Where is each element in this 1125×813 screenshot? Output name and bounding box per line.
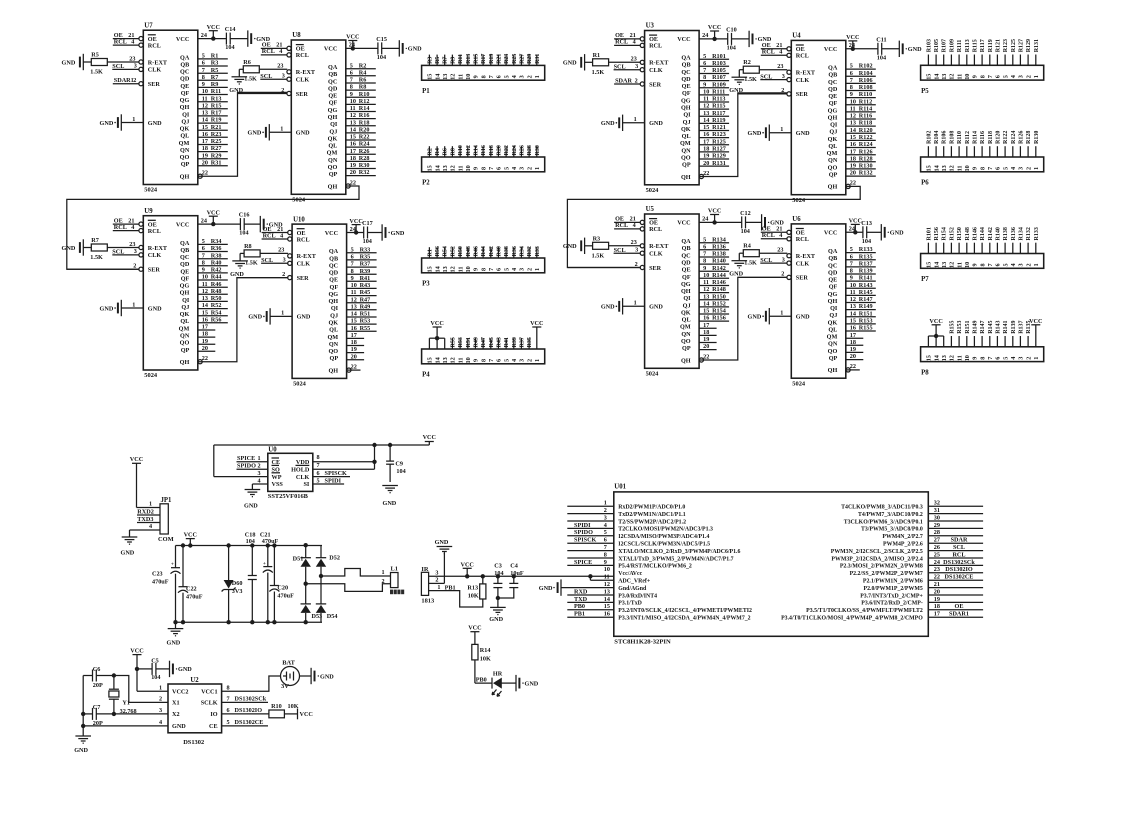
svg-text:10: 10 <box>465 266 472 272</box>
svg-text:16: 16 <box>850 141 856 148</box>
svg-text:R-EXT: R-EXT <box>796 70 816 77</box>
P6 pin 15 net R102 <box>927 146 929 157</box>
VCC symbol at U6 <box>854 224 856 232</box>
svg-text:2: 2 <box>133 77 136 84</box>
svg-text:JP1: JP1 <box>161 497 173 504</box>
svg-text:R15: R15 <box>211 102 222 109</box>
svg-text:15: 15 <box>703 124 709 131</box>
svg-text:QM: QM <box>179 325 190 332</box>
U2 IO pin 6 wire DS1302IO <box>222 713 269 715</box>
svg-text:3: 3 <box>519 167 526 170</box>
svg-text:2: 2 <box>526 167 533 170</box>
svg-text:23: 23 <box>777 247 783 254</box>
svg-text:QM: QM <box>680 140 691 147</box>
svg-text:R111: R111 <box>957 40 963 53</box>
ground at U2 <box>75 735 91 737</box>
svg-text:R128: R128 <box>1026 131 1032 144</box>
MCU pin 20 wire <box>928 594 983 596</box>
svg-text:RCL: RCL <box>796 53 809 60</box>
P1 pin 3 net R27 <box>520 55 522 66</box>
svg-text:SCL: SCL <box>614 64 626 71</box>
U8 output pin 15 net R22 <box>346 139 376 141</box>
svg-text:R20: R20 <box>359 127 370 134</box>
svg-text:R16: R16 <box>359 112 370 119</box>
U0 SI pin 5 wire SPIDI <box>313 483 344 485</box>
svg-text:104: 104 <box>377 54 386 61</box>
svg-text:R41: R41 <box>360 275 371 282</box>
U5 R-EXT pin 23 wire <box>609 245 641 247</box>
svg-text:1: 1 <box>634 116 637 123</box>
svg-text:1: 1 <box>534 167 541 170</box>
MCU U01 STC8H1K28-32PIN <box>614 492 929 636</box>
P5 pin 2 net R129 <box>1027 55 1029 66</box>
svg-text:3: 3 <box>519 359 526 362</box>
svg-text:R33: R33 <box>535 246 541 256</box>
svg-text:RCL: RCL <box>649 43 662 50</box>
svg-text:DS1302: DS1302 <box>183 739 204 746</box>
svg-text:1: 1 <box>159 684 162 691</box>
svg-text:QD: QD <box>180 261 190 268</box>
svg-text:GND: GND <box>748 314 762 321</box>
svg-text:9: 9 <box>473 268 480 271</box>
svg-text:4: 4 <box>604 522 607 529</box>
svg-text:R-EXT: R-EXT <box>296 69 316 76</box>
svg-text:9: 9 <box>703 81 706 88</box>
svg-text:GND: GND <box>748 130 762 137</box>
ground at C12 <box>761 214 763 230</box>
RTC U2 DS1302 <box>168 684 222 733</box>
U4 output pin 11 net R114 <box>846 111 876 113</box>
svg-text:10K: 10K <box>468 593 479 600</box>
svg-text:13: 13 <box>604 588 610 595</box>
svg-text:4: 4 <box>511 167 518 170</box>
ground at U5 pin 1 <box>622 298 624 314</box>
svg-text:14: 14 <box>434 74 441 80</box>
svg-text:18: 18 <box>202 331 208 338</box>
P5 pin 9 net R115 <box>973 55 975 66</box>
svg-text:2: 2 <box>635 77 638 84</box>
svg-text:5: 5 <box>317 477 320 484</box>
U8 output pin 10 net R12 <box>346 103 376 105</box>
svg-text:R105: R105 <box>934 39 940 52</box>
svg-text:HR: HR <box>493 670 503 677</box>
resistor R14 10K <box>472 644 478 660</box>
svg-text:10: 10 <box>703 272 709 279</box>
svg-text:R49: R49 <box>473 337 479 347</box>
svg-text:C12: C12 <box>740 210 751 217</box>
shift register U4 <box>791 40 846 194</box>
svg-text:R25: R25 <box>211 138 222 145</box>
svg-text:QH: QH <box>328 183 338 190</box>
svg-text:GND: GND <box>601 120 615 127</box>
svg-text:15: 15 <box>850 134 856 141</box>
svg-text:13: 13 <box>941 262 948 268</box>
svg-text:8: 8 <box>979 263 986 266</box>
svg-text:P3.2/INT0/SCLK_4/I2CSCL_4/PWME: P3.2/INT0/SCLK_4/I2CSCL_4/PWMETI/PWMETI2 <box>618 608 752 614</box>
svg-text:QN: QN <box>180 333 190 340</box>
svg-text:R115: R115 <box>712 103 725 110</box>
svg-text:22: 22 <box>351 363 357 370</box>
svg-text:DS1302IO: DS1302IO <box>945 566 973 573</box>
svg-text:QL: QL <box>828 143 837 150</box>
svg-text:U5: U5 <box>646 206 655 213</box>
U5 output pin 7 net R138 <box>699 256 729 258</box>
svg-text:8: 8 <box>604 551 607 558</box>
svg-text:9: 9 <box>351 275 354 282</box>
svg-text:18: 18 <box>350 155 356 162</box>
svg-text:9: 9 <box>473 75 480 78</box>
U6 output pin 8 net R139 <box>846 273 876 275</box>
svg-text:9: 9 <box>202 81 205 88</box>
svg-text:QI: QI <box>683 112 691 119</box>
U10 output pin 14 net R51 <box>347 316 377 318</box>
P7 pin 8 net R144 <box>981 243 983 254</box>
connector P1 <box>422 65 545 80</box>
svg-text:R36: R36 <box>211 245 222 252</box>
U3 output pin 7 net R105 <box>699 73 729 75</box>
U10 output pin 12 net R47 <box>347 302 377 304</box>
svg-text:14: 14 <box>351 311 357 318</box>
svg-text:104: 104 <box>741 228 750 235</box>
svg-text:QL: QL <box>180 133 189 140</box>
svg-text:VCC: VCC <box>468 625 481 632</box>
P5 pin 10 net R113 <box>966 55 968 66</box>
svg-text:RCL: RCL <box>263 232 276 239</box>
svg-text:QK: QK <box>828 319 838 326</box>
svg-text:104: 104 <box>396 468 405 475</box>
MCU pin 26 wire net SCL <box>928 550 983 552</box>
svg-text:R147: R147 <box>980 320 986 333</box>
svg-text:R46: R46 <box>211 281 222 288</box>
svg-text:7: 7 <box>703 67 706 74</box>
svg-text:12: 12 <box>450 74 457 80</box>
P6 pin 11 net R110 <box>958 146 960 157</box>
capacitor C22 470uF <box>182 546 184 587</box>
svg-text:R7: R7 <box>443 57 449 64</box>
svg-text:10K: 10K <box>480 655 491 662</box>
svg-text:R14: R14 <box>480 647 491 654</box>
svg-text:D52: D52 <box>329 554 340 561</box>
svg-text:10: 10 <box>703 89 709 96</box>
MCU pin 22 wire net DS1302CE <box>928 579 983 581</box>
P6 pin 6 net R120 <box>996 146 998 157</box>
ground at R4 <box>739 252 743 254</box>
svg-text:6: 6 <box>995 263 1002 266</box>
svg-text:QJ: QJ <box>181 119 189 126</box>
svg-text:RCL: RCL <box>297 236 310 243</box>
svg-text:CLK: CLK <box>296 77 310 84</box>
svg-text:SCL: SCL <box>112 63 124 70</box>
svg-text:R113: R113 <box>712 96 725 103</box>
svg-text:11: 11 <box>850 289 856 296</box>
svg-text:R18: R18 <box>359 119 370 126</box>
svg-text:104: 104 <box>862 238 871 245</box>
svg-text:5: 5 <box>1002 75 1009 78</box>
svg-text:23: 23 <box>129 241 135 248</box>
wire bridge to L1 pin 1 <box>321 569 391 577</box>
svg-text:R156: R156 <box>934 227 940 240</box>
U6 output pin 10 net R143 <box>846 287 876 289</box>
U7 CLK pin 3 wire SCL <box>112 68 139 70</box>
U5 output pin 11 net R146 <box>699 285 729 287</box>
U9 output pin 14 net R52 <box>198 308 228 310</box>
MCU pin 16 wire net PB1 <box>567 616 614 618</box>
U0 CLK pin 6 wire SPISCK <box>313 476 350 478</box>
U8 output pin 17 net R26 <box>346 153 376 155</box>
svg-text:DS1302CE: DS1302CE <box>945 574 974 581</box>
U2 SCLK pin 7 wire DS1302SCk <box>222 701 268 703</box>
svg-text:6: 6 <box>227 707 230 714</box>
U3 output pin 19 net R129 <box>699 158 729 160</box>
svg-text:R145: R145 <box>988 320 994 333</box>
svg-text:QF: QF <box>330 284 339 291</box>
svg-text:22: 22 <box>202 170 208 177</box>
svg-text:104: 104 <box>363 238 372 245</box>
svg-text:29: 29 <box>934 522 940 529</box>
svg-text:11: 11 <box>956 74 963 80</box>
svg-text:QG: QG <box>180 283 190 290</box>
svg-text:R24: R24 <box>359 141 370 148</box>
svg-text:CLK: CLK <box>297 261 311 268</box>
P3 pin 4 net R36 <box>513 247 515 258</box>
P4 pin 2 net R35 <box>528 338 530 349</box>
svg-text:CLK: CLK <box>796 260 810 267</box>
U6 VCC pin 24 wire <box>846 231 863 233</box>
svg-text:11: 11 <box>956 262 963 268</box>
U10 output pin 10 net R43 <box>347 287 377 289</box>
diode D51 <box>305 545 307 558</box>
svg-text:23: 23 <box>129 55 135 62</box>
svg-text:PWM4P_2/P2.6: PWM4P_2/P2.6 <box>883 542 923 548</box>
wire U3 QH to U4 SER <box>699 93 787 177</box>
svg-text:GND: GND <box>408 46 422 53</box>
connector P5 <box>921 65 1044 80</box>
svg-text:Gnd/AGnd: Gnd/AGnd <box>618 586 647 592</box>
U9 output pin 19 <box>198 343 216 345</box>
P4 pin 5 net R41 <box>505 338 507 349</box>
wire C12 to ground <box>746 221 762 223</box>
svg-text:6: 6 <box>995 167 1002 170</box>
node bridge negative <box>304 582 308 586</box>
svg-text:9: 9 <box>972 357 979 360</box>
capacitor C11 104 <box>877 43 879 55</box>
MCU pin 4 wire net SPIDI <box>567 527 614 529</box>
MCU pin 2 wire <box>567 513 614 515</box>
svg-text:QG: QG <box>328 107 338 114</box>
svg-text:QC: QC <box>180 69 189 76</box>
svg-text:19: 19 <box>351 346 357 353</box>
svg-text:QI: QI <box>331 305 339 312</box>
U7 output pin 14 net R19 <box>198 122 228 124</box>
U5 SER pin 2 wire <box>567 267 640 269</box>
wire C10 to ground <box>732 38 750 40</box>
svg-text:SCL: SCL <box>260 73 272 80</box>
U5 CLK pin 3 wire SCL <box>614 252 641 254</box>
P4 pin 8 net R47 <box>482 338 484 349</box>
svg-text:6: 6 <box>850 70 853 77</box>
svg-text:GND: GND <box>62 59 76 66</box>
P2 pin 10 net R12 <box>467 146 469 157</box>
P3 pin 13 net R54 <box>444 247 446 258</box>
svg-text:R156: R156 <box>712 315 726 322</box>
svg-text:20P: 20P <box>93 682 103 689</box>
svg-text:R121: R121 <box>712 124 726 131</box>
ground at R7 <box>82 239 84 255</box>
svg-text:3: 3 <box>282 73 285 80</box>
svg-text:R20: R20 <box>496 145 502 155</box>
svg-text:8: 8 <box>480 359 487 362</box>
svg-text:R128: R128 <box>859 155 873 162</box>
svg-text:3: 3 <box>635 63 638 70</box>
svg-text:104: 104 <box>494 570 503 577</box>
svg-text:QN: QN <box>828 157 838 164</box>
svg-text:17: 17 <box>351 332 357 339</box>
ground at U8 pin 1 <box>268 124 270 140</box>
U8 VCC pin 24 wire <box>346 47 378 49</box>
svg-text:GND: GND <box>391 230 405 237</box>
U7 output pin 8 net R7 <box>198 79 228 81</box>
svg-text:1: 1 <box>437 584 440 591</box>
svg-text:9: 9 <box>850 91 853 98</box>
U3 CLK pin 3 wire SCL <box>614 69 641 71</box>
svg-text:3: 3 <box>519 268 526 271</box>
svg-text:13: 13 <box>442 266 449 272</box>
svg-text:13: 13 <box>941 165 948 171</box>
svg-text:23: 23 <box>277 63 283 70</box>
node bridge positive <box>319 574 323 578</box>
svg-text:12: 12 <box>949 74 956 80</box>
svg-text:14: 14 <box>703 301 709 308</box>
U10 output pin 8 net R39 <box>347 273 377 275</box>
JP1 pin 4 wire <box>130 529 161 531</box>
svg-text:22: 22 <box>350 179 356 186</box>
svg-text:7: 7 <box>488 75 495 78</box>
P1 pin 15 net R3 <box>428 55 430 66</box>
svg-text:R154: R154 <box>712 308 726 315</box>
svg-text:470uF: 470uF <box>262 538 279 545</box>
svg-text:1: 1 <box>1033 167 1040 170</box>
svg-text:P3.3/INT1/MISO_4/I2CSDA_4/PWM4: P3.3/INT1/MISO_4/I2CSDA_4/PWM4N_4/PWM7_2 <box>618 616 750 622</box>
svg-text:QF: QF <box>829 284 838 291</box>
svg-text:R122: R122 <box>1003 131 1009 144</box>
svg-text:R125: R125 <box>712 138 726 145</box>
svg-text:12: 12 <box>202 288 208 295</box>
svg-text:15: 15 <box>926 355 933 361</box>
svg-text:R107: R107 <box>712 74 726 81</box>
svg-text:R117: R117 <box>980 39 986 52</box>
P8 pin 4 net R139 <box>1012 336 1014 347</box>
svg-text:15: 15 <box>427 357 434 363</box>
svg-text:R39: R39 <box>512 337 518 347</box>
ground at C10 <box>748 31 750 47</box>
svg-text:R112: R112 <box>859 98 872 105</box>
svg-text:GND: GND <box>100 305 114 312</box>
svg-text:23: 23 <box>934 566 940 573</box>
svg-text:22: 22 <box>703 353 709 360</box>
svg-text:R8: R8 <box>359 84 367 91</box>
svg-text:QH: QH <box>828 184 838 191</box>
svg-text:P3.6/INT2/RxD_2/CMP-: P3.6/INT2/RxD_2/CMP- <box>861 601 923 607</box>
svg-text:R14: R14 <box>473 145 479 155</box>
svg-text:QB: QB <box>329 255 338 262</box>
P7 pin 3 net R134 <box>1019 243 1021 254</box>
svg-text:QO: QO <box>828 164 838 171</box>
P7 pin 1 net R133 <box>1035 243 1037 254</box>
svg-text:R6: R6 <box>443 148 449 155</box>
svg-text:24: 24 <box>201 217 207 224</box>
svg-text:1813: 1813 <box>421 597 434 604</box>
svg-text:R126: R126 <box>1018 131 1024 144</box>
svg-text:VCC: VCC <box>929 318 942 325</box>
svg-text:R5: R5 <box>435 57 441 64</box>
wire crystal left leg <box>82 676 84 737</box>
svg-text:QO: QO <box>180 340 190 347</box>
svg-text:QP: QP <box>329 171 338 178</box>
svg-text:R118: R118 <box>859 120 872 127</box>
wire R14 to LED PB0 <box>474 660 476 683</box>
svg-text:QK: QK <box>681 309 691 316</box>
U9 GND pin 1 wire <box>121 307 143 309</box>
MCU pin 12 wire <box>561 587 614 589</box>
svg-text:P2: P2 <box>422 180 430 187</box>
svg-text:3: 3 <box>1018 167 1025 170</box>
svg-text:GND: GND <box>649 120 663 127</box>
svg-text:3: 3 <box>134 63 137 70</box>
svg-text:R3: R3 <box>211 60 219 67</box>
svg-text:17: 17 <box>850 332 856 339</box>
U9 output pin 5 net R34 <box>198 243 228 245</box>
P4 pin 3 net R37 <box>520 338 522 349</box>
svg-text:VCC: VCC <box>325 230 338 237</box>
svg-text:2: 2 <box>1025 357 1032 360</box>
svg-text:R140: R140 <box>712 258 726 265</box>
svg-text:R129: R129 <box>712 153 726 160</box>
P2 pin 13 net R6 <box>444 146 446 157</box>
U10 output pin 16 net R55 <box>347 330 377 332</box>
svg-text:15: 15 <box>202 124 208 131</box>
svg-text:15: 15 <box>703 308 709 315</box>
svg-text:QA: QA <box>828 248 838 255</box>
svg-text:R45: R45 <box>489 337 495 347</box>
svg-text:VCC: VCC <box>207 24 220 31</box>
svg-text:CE: CE <box>209 723 218 730</box>
svg-text:R54: R54 <box>443 246 449 256</box>
svg-text:R22: R22 <box>359 134 370 141</box>
svg-text:QA: QA <box>180 240 190 247</box>
P7 pin 4 net R136 <box>1012 243 1014 254</box>
resistor R2 1.5K <box>743 66 759 73</box>
U5 RCL pin 4 wire <box>614 228 641 230</box>
svg-text:13: 13 <box>442 165 449 171</box>
svg-text:ADC_VRef+: ADC_VRef+ <box>618 579 651 585</box>
svg-text:R122: R122 <box>859 134 873 141</box>
U3 VCC pin 24 wire <box>699 38 728 40</box>
U8 output pin 8 net R8 <box>346 89 376 91</box>
svg-text:CLK: CLK <box>148 252 162 259</box>
U3 RCL pin 4 wire <box>614 44 641 46</box>
MCU pin 6 wire net SPISCK <box>567 542 614 544</box>
P3 pin 12 net R52 <box>451 247 453 258</box>
svg-text:3: 3 <box>1018 263 1025 266</box>
svg-text:10: 10 <box>202 88 208 95</box>
svg-text:17: 17 <box>934 611 940 618</box>
svg-text:RxD2/PWM1P/ADC0/P1.0: RxD2/PWM1P/ADC0/P1.0 <box>618 505 685 511</box>
svg-text:SCL: SCL <box>760 73 772 80</box>
svg-text:QO: QO <box>328 348 338 355</box>
svg-text:SCL: SCL <box>261 257 273 264</box>
svg-text:R41: R41 <box>504 337 510 347</box>
svg-text:VCC: VCC <box>1029 318 1042 325</box>
